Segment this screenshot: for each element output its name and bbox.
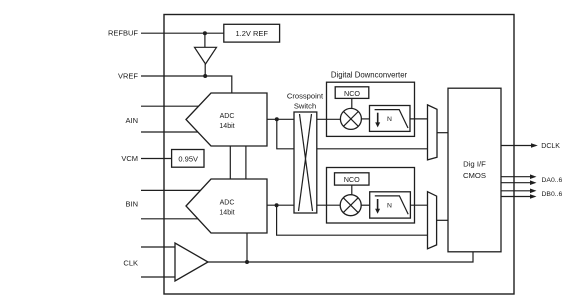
svg-text:VREF: VREF xyxy=(118,72,138,81)
wire REFBUF to buffer xyxy=(204,33,206,47)
svg-text:0.95V: 0.95V xyxy=(178,154,198,163)
wire DDC A output xyxy=(410,118,428,120)
node REFBUF junction xyxy=(203,31,207,35)
wire DDC B output xyxy=(410,204,427,206)
ADC A block xyxy=(186,93,267,146)
wire clock between ADCs xyxy=(245,146,247,178)
NCO A xyxy=(335,87,369,99)
node clock junction xyxy=(245,260,249,264)
wire mux A to DigIF xyxy=(437,132,448,134)
svg-text:CLK: CLK xyxy=(123,259,138,268)
svg-text:Digital Downconverter: Digital Downconverter xyxy=(331,70,408,79)
wire crosspoint out A xyxy=(317,118,341,120)
mixer B xyxy=(340,195,361,216)
wire NCO A to mixer A xyxy=(351,98,353,108)
wire ADC A output xyxy=(267,118,294,120)
svg-text:N: N xyxy=(387,116,392,123)
wire ADC B output xyxy=(267,204,294,206)
svg-text:DB0..6: DB0..6 xyxy=(542,191,563,198)
wire VCM xyxy=(141,158,172,160)
node ADC A output junction xyxy=(275,117,279,121)
svg-text:NCO: NCO xyxy=(344,89,360,98)
crosspoint switch block xyxy=(287,92,324,213)
wire crosspoint out B xyxy=(317,204,340,206)
svg-text:Crosspoint: Crosspoint xyxy=(287,92,324,101)
wire ADC A bypass xyxy=(277,119,428,149)
wire VREF xyxy=(141,76,232,93)
svg-text:Switch: Switch xyxy=(294,102,316,111)
wire clock distribution xyxy=(208,252,473,262)
wire mixer B to decimator B xyxy=(361,204,370,206)
1.2V REF block xyxy=(224,24,280,42)
NCO B xyxy=(335,173,370,185)
wire BIN+ xyxy=(141,189,201,191)
svg-text:CMOS: CMOS xyxy=(463,171,486,180)
svg-text:REFBUF: REFBUF xyxy=(108,29,138,38)
node VREF junction xyxy=(203,74,207,78)
wire REFBUF input xyxy=(141,32,224,34)
reference buffer amplifier xyxy=(195,47,217,64)
svg-text:DA0..6: DA0..6 xyxy=(542,177,563,184)
DDC B enclosure xyxy=(327,168,415,224)
svg-text:14bit: 14bit xyxy=(219,123,234,130)
Dig I/F CMOS block xyxy=(448,88,501,252)
svg-text:BIN: BIN xyxy=(125,200,138,209)
decimation filter A xyxy=(370,106,411,132)
mixer A xyxy=(340,108,361,129)
svg-text:VCM: VCM xyxy=(121,154,138,163)
svg-text:ADC: ADC xyxy=(220,113,235,120)
svg-text:ADC: ADC xyxy=(220,200,235,207)
node ADC B output junction xyxy=(275,203,279,207)
wire ADC B bypass xyxy=(277,205,428,235)
svg-text:Dig I/F: Dig I/F xyxy=(463,160,486,169)
0.95V block xyxy=(172,150,204,168)
wire vref between ADCs xyxy=(229,146,231,178)
DA0..6 output arrows xyxy=(501,174,562,185)
svg-text:DCLK: DCLK xyxy=(541,143,560,150)
wire AIN+ xyxy=(141,105,199,107)
svg-text:AIN: AIN xyxy=(125,116,138,125)
DDC A enclosure xyxy=(327,82,415,136)
DCLK output arrow xyxy=(501,143,560,150)
wire CLK+ xyxy=(141,246,175,248)
chip boundary box xyxy=(164,15,514,295)
output mux B xyxy=(428,192,437,249)
wire NCO B to mixer B xyxy=(351,185,353,195)
ADC B block xyxy=(186,179,267,233)
decimation filter B xyxy=(370,192,411,218)
svg-text:NCO: NCO xyxy=(344,175,360,184)
clock buffer xyxy=(175,243,208,281)
wire clock to ADC B xyxy=(246,233,248,262)
DB0..6 output arrows xyxy=(501,189,562,199)
wire CLK- xyxy=(141,276,175,278)
wire mux B to DigIF xyxy=(437,219,448,221)
wire mixer A to decimator A xyxy=(361,118,369,120)
svg-text:1.2V REF: 1.2V REF xyxy=(235,29,268,38)
wire buffer to VREF xyxy=(204,64,206,76)
wire BIN- xyxy=(141,218,198,220)
svg-text:14bit: 14bit xyxy=(219,210,234,217)
output mux A xyxy=(428,105,438,160)
svg-text:N: N xyxy=(387,202,392,209)
wire AIN- xyxy=(141,131,198,133)
